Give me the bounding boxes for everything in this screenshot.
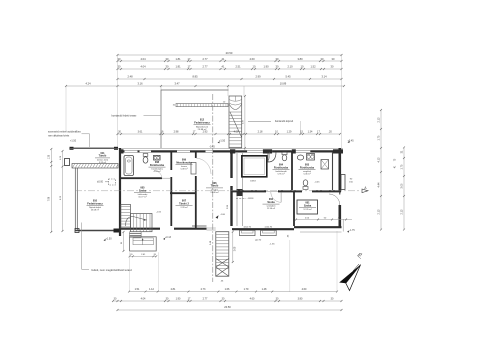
svg-text:+1.50: +1.50 — [70, 139, 77, 142]
svg-text:5.95 m²: 5.95 m² — [277, 173, 284, 176]
svg-text:11.96 m²: 11.96 m² — [267, 207, 275, 210]
svg-text:1.29: 1.29 — [49, 154, 51, 159]
svg-text:bontandó fedett terasz: bontandó fedett terasz — [112, 114, 138, 117]
svg-text:1.75: 1.75 — [377, 135, 380, 140]
svg-text:Fedett terasz: Fedett terasz — [87, 202, 103, 205]
svg-text:1.48: 1.48 — [262, 288, 267, 291]
svg-text:1.81: 1.81 — [175, 65, 181, 69]
svg-text:Tároló 2: Tároló 2 — [179, 202, 189, 205]
svg-text:2.77: 2.77 — [203, 298, 208, 301]
svg-text:2.77: 2.77 — [202, 57, 208, 61]
svg-text:1.90: 1.90 — [176, 298, 181, 301]
svg-text:13.40 m²: 13.40 m² — [210, 191, 219, 194]
svg-text:18/18: 18/18 — [250, 181, 256, 183]
svg-text:Fürdőszoba: Fürdőszoba — [150, 164, 165, 167]
svg-text:+1.50: +1.50 — [105, 237, 112, 240]
svg-text:Szoba: Szoba — [267, 201, 275, 204]
svg-text:.20: .20 — [328, 131, 332, 134]
svg-text:2.13: 2.13 — [377, 117, 380, 122]
svg-text:1.90: 1.90 — [263, 65, 269, 69]
svg-text:20.50: 20.50 — [226, 51, 233, 55]
svg-text:7.86: 7.86 — [49, 196, 51, 201]
svg-text:-1.75: -1.75 — [349, 230, 355, 232]
svg-text:2.51: 2.51 — [235, 65, 241, 69]
svg-text:1.52: 1.52 — [310, 65, 316, 69]
svg-text:5.45: 5.45 — [285, 74, 291, 78]
svg-text:4.60: 4.60 — [249, 57, 255, 61]
svg-text:-0.45: -0.45 — [315, 181, 321, 183]
svg-text:3.00: 3.00 — [400, 183, 403, 188]
svg-text:4.24 m²: 4.24 m² — [153, 170, 160, 173]
svg-text:+1.50: +1.50 — [219, 140, 226, 143]
svg-text:23.08 m²: 23.08 m² — [91, 209, 100, 212]
svg-text:5.06 m²: 5.06 m² — [303, 173, 310, 176]
svg-text:2.81: 2.81 — [171, 288, 176, 291]
svg-text:Fürdőszoba: Fürdőszoba — [274, 166, 289, 169]
svg-text:4.24: 4.24 — [85, 81, 91, 85]
svg-text:16.77 m²: 16.77 m² — [138, 196, 147, 199]
svg-text:-1.56: -1.56 — [270, 244, 276, 246]
svg-text:3.68: 3.68 — [235, 246, 237, 251]
svg-text:2.13: 2.13 — [400, 209, 403, 214]
svg-text:~18/18: ~18/18 — [247, 198, 255, 200]
svg-text:4.04: 4.04 — [141, 298, 146, 301]
svg-text:ablak 90: ablak 90 — [265, 227, 273, 229]
svg-text:2.99: 2.99 — [255, 74, 261, 78]
svg-text:4.13: 4.13 — [377, 157, 380, 162]
svg-text:nem alkalmas kérés: nem alkalmas kérés — [48, 134, 70, 137]
svg-text:1.34: 1.34 — [308, 131, 313, 134]
svg-text:1.81: 1.81 — [175, 57, 181, 61]
svg-text:bontandó lépcső: bontandó lépcső — [275, 120, 294, 123]
svg-text:2.13: 2.13 — [377, 209, 380, 214]
svg-text:3.47: 3.47 — [174, 81, 180, 85]
svg-text:fedett, nem megközelíthető ter: fedett, nem megközelíthető terasz — [92, 268, 133, 272]
svg-text:4.04: 4.04 — [140, 65, 146, 69]
svg-text:10.89: 10.89 — [280, 81, 287, 85]
svg-text:2.28 m²: 2.28 m² — [180, 206, 187, 209]
svg-text:szomszéd emberi autóbeállóra: szomszéd emberi autóbeállóra — [48, 131, 81, 134]
svg-text:-1.55: -1.55 — [156, 212, 162, 214]
svg-text:+0.13: +0.13 — [165, 237, 172, 239]
svg-text:4.60: 4.60 — [250, 298, 255, 301]
svg-text:2.48: 2.48 — [127, 74, 133, 78]
svg-text:1.29: 1.29 — [287, 131, 292, 134]
svg-text:Tároló: Tároló — [211, 185, 219, 188]
svg-text:3.14: 3.14 — [321, 74, 327, 78]
svg-text:3.61: 3.61 — [138, 131, 143, 134]
svg-text:-0.45: -0.45 — [209, 146, 215, 149]
svg-text:4.09: 4.09 — [234, 131, 239, 134]
svg-text:2.77: 2.77 — [202, 65, 208, 69]
svg-text:5.08 m²: 5.08 m² — [180, 168, 187, 171]
svg-text:20.50: 20.50 — [224, 305, 231, 309]
svg-text:1.51: 1.51 — [135, 288, 140, 291]
svg-text:2.93: 2.93 — [203, 131, 208, 134]
svg-text:Mosókonyha: Mosókonyha — [176, 161, 192, 164]
svg-text:4.44: 4.44 — [377, 182, 380, 187]
svg-text:2.18: 2.18 — [258, 131, 263, 134]
svg-text:Tároló: Tároló — [99, 155, 107, 158]
svg-text:3.16: 3.16 — [137, 81, 143, 85]
svg-text:8.85: 8.85 — [192, 74, 198, 78]
svg-text:1.75: 1.75 — [400, 164, 403, 169]
svg-text:3.80: 3.80 — [298, 298, 303, 301]
svg-text:Szoba: Szoba — [304, 204, 312, 207]
svg-text:3.55 m²: 3.55 m² — [99, 161, 106, 164]
svg-text:2.10: 2.10 — [287, 65, 293, 69]
svg-text:2.98: 2.98 — [174, 131, 179, 134]
svg-text:Fedett terasz: Fedett terasz — [194, 122, 210, 125]
svg-text:4.04: 4.04 — [140, 57, 146, 61]
svg-text:4.60: 4.60 — [302, 288, 307, 291]
svg-text:Fürdőszoba: Fürdőszoba — [300, 166, 315, 169]
svg-text:1.66: 1.66 — [225, 288, 230, 291]
svg-text:ajtó 90: ajtó 90 — [255, 239, 262, 242]
svg-text:1.12: 1.12 — [149, 288, 154, 291]
svg-text:ablak 90: ablak 90 — [243, 227, 251, 229]
svg-text:±0.00: ±0.00 — [97, 181, 104, 184]
svg-text:2.73: 2.73 — [201, 288, 206, 291]
svg-text:12.35 m²: 12.35 m² — [303, 208, 312, 211]
svg-text:1.79: 1.79 — [244, 288, 249, 291]
svg-text:3.80: 3.80 — [297, 57, 303, 61]
svg-text:-1.80: -1.80 — [220, 214, 226, 216]
